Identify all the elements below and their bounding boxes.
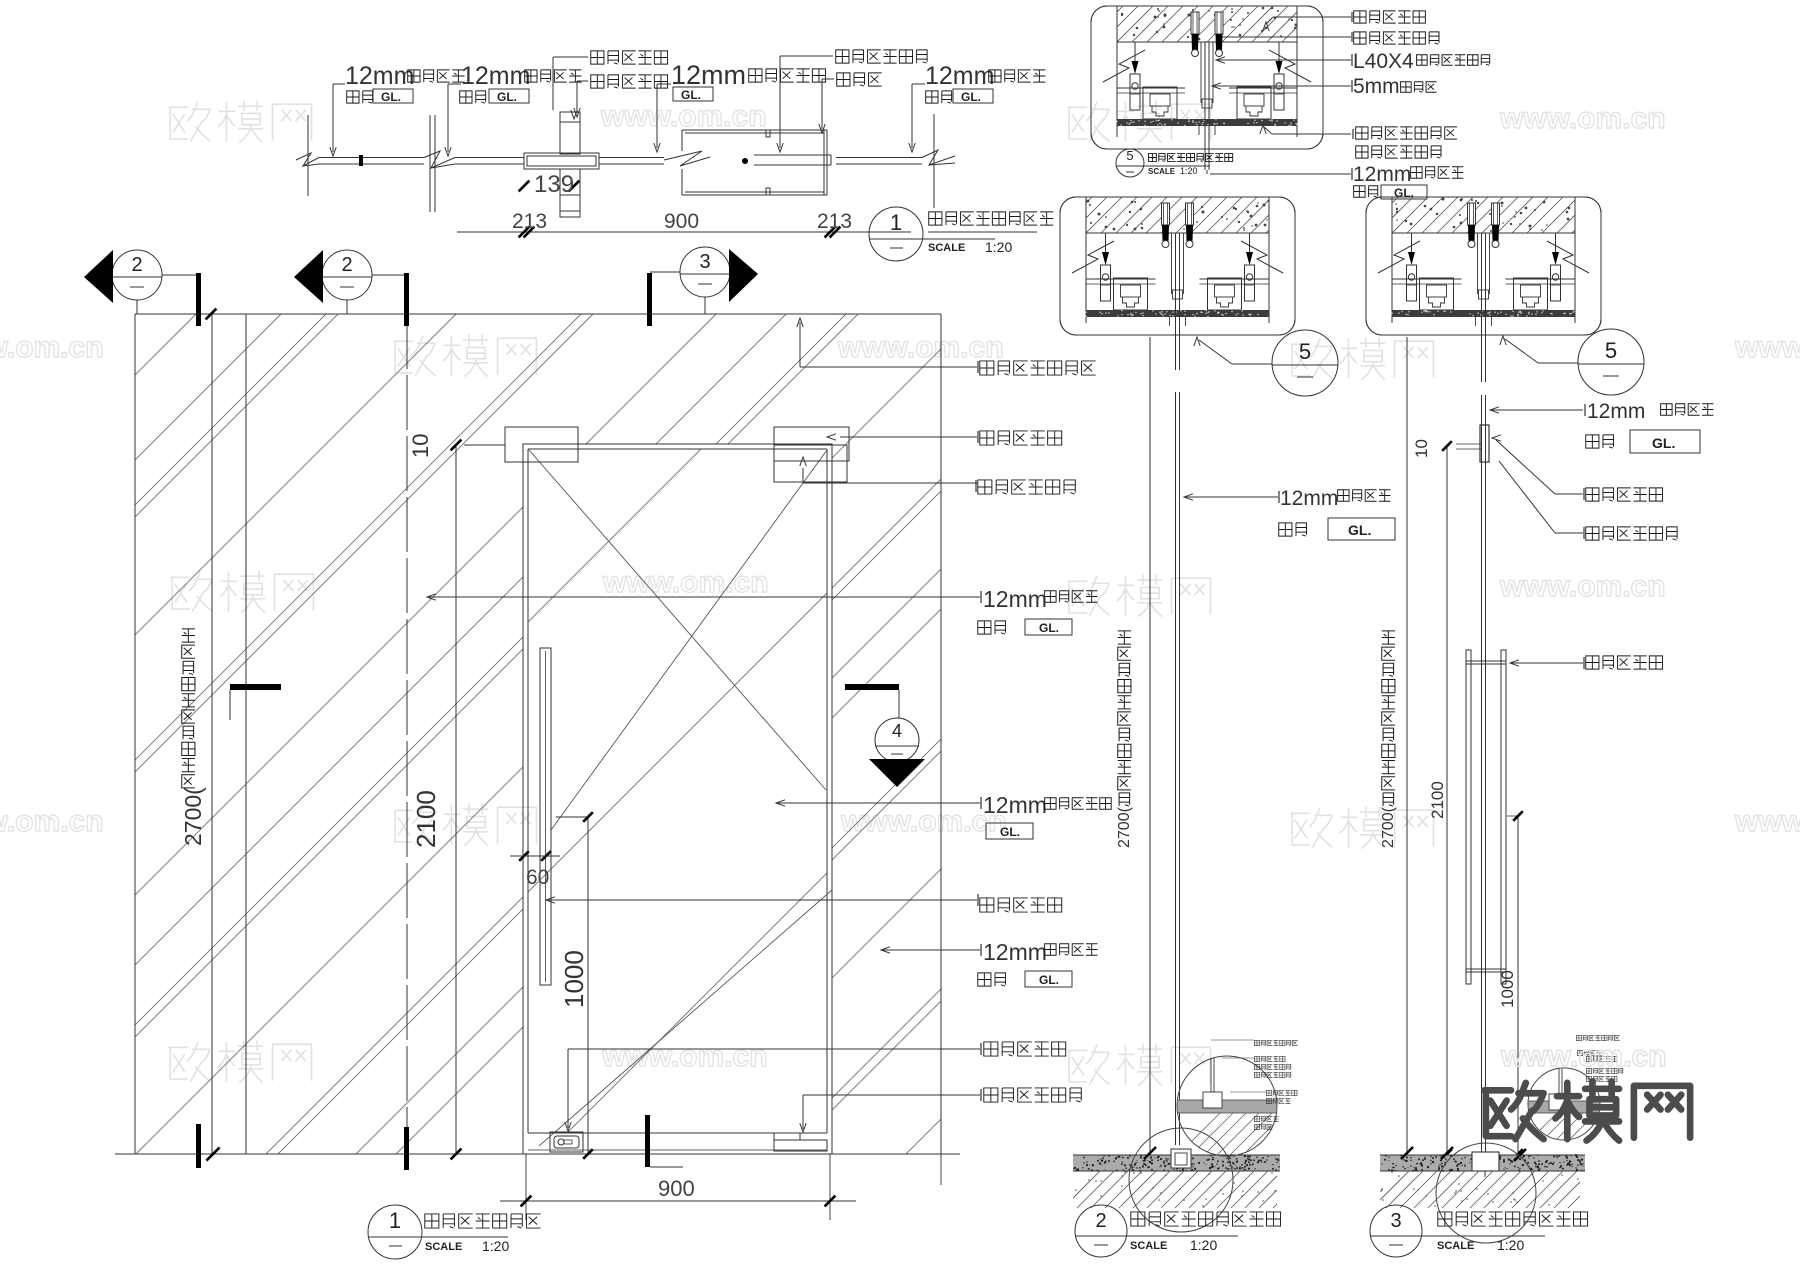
svg-text:GL.: GL. [681, 88, 701, 102]
wall break symbols [1103, 50, 1145, 82]
leader stainless top door clamp [803, 482, 977, 484]
plan door-gap break arrow [664, 151, 710, 166]
svg-text:GL.: GL. [961, 90, 981, 104]
section2 mini floor detail circle [1177, 1056, 1277, 1156]
svg-text:www.om.cn: www.om.cn [0, 331, 104, 364]
ceiling detail rounded frame [1366, 197, 1601, 335]
door handle (elevation) [540, 648, 551, 985]
plan dimension line 213/900/213 [457, 231, 911, 233]
svg-text:www.om.cn: www.om.cn [602, 566, 769, 599]
svg-text:1:20: 1:20 [985, 239, 1012, 255]
section2 big detail circle at floor [1129, 1128, 1233, 1232]
ceiling walls [1391, 233, 1393, 323]
section3 big detail circle at floor [1436, 1143, 1536, 1243]
slab concrete dots [1395, 198, 1570, 233]
furring channel [1117, 87, 1185, 89]
door bottom rail [528, 1149, 827, 1151]
dimension 60 handle [519, 851, 529, 861]
plan break symbol left end [296, 153, 319, 166]
svg-text:L40X4: L40X4 [1353, 50, 1414, 73]
label stainless curved clamp (section3) [1555, 493, 1583, 495]
hanger rods [1134, 42, 1136, 61]
ceiling board speckled band [1086, 310, 1269, 317]
svg-text:www.om.cn: www.om.cn [837, 331, 1004, 364]
elevation outline [135, 313, 941, 315]
section bubble 3 [680, 247, 730, 297]
svg-text:5: 5 [1126, 148, 1133, 163]
svg-text:GL.: GL. [381, 90, 401, 104]
elevation glass hatch (fixed panels) [0, 314, 1746, 1154]
label 12mm glass partition (section3) [1490, 407, 1499, 413]
floor reference ticks [196, 1124, 201, 1168]
leader L40X4 angle steel label [1216, 57, 1225, 63]
door opening X lines [529, 450, 826, 790]
svg-text:12mm: 12mm [983, 939, 1047, 965]
plan lock body lower [560, 169, 580, 195]
bubble 5 for section 2 [1272, 330, 1338, 396]
mid reference tick left [230, 684, 281, 690]
plan door pivot dot [743, 159, 748, 164]
label stainless top door clamp (section3) [1555, 532, 1583, 534]
door lock (elevation) [550, 1132, 583, 1152]
svg-text:GL.: GL. [497, 90, 517, 104]
leader 12mm glass partition right panel [881, 947, 890, 953]
ceiling detail rounded frame [1060, 197, 1295, 335]
carrier clip assemblies [1420, 278, 1454, 310]
svg-text:12mm: 12mm [345, 62, 414, 90]
svg-text:2700(: 2700( [1116, 806, 1133, 848]
svg-text:12mm: 12mm [925, 62, 994, 90]
svg-text:SCALE: SCALE [1130, 1240, 1167, 1252]
section bubble 2b [322, 250, 372, 300]
leader 12mm glass door label [776, 800, 785, 806]
svg-text:www.om.cn: www.om.cn [840, 805, 1007, 838]
section2 concrete hatch below floor [1063, 1171, 1310, 1208]
svg-text:2100: 2100 [1428, 781, 1447, 819]
label stainless steel handle (plan) [591, 75, 668, 88]
svg-text:GL.: GL. [1000, 825, 1020, 839]
svg-text:3: 3 [1390, 1210, 1401, 1232]
dimension 2100 elevation [455, 446, 457, 1154]
ceiling board speckled band [1392, 310, 1575, 317]
glass partition in ceiling detail [1481, 233, 1483, 339]
slab concrete dots [1121, 7, 1298, 41]
anchor bolts [1162, 203, 1170, 225]
svg-text:12mm: 12mm [983, 792, 1047, 818]
svg-text:www.om.cn: www.om.cn [1499, 102, 1666, 135]
label stainless handle (section3) [1510, 660, 1519, 666]
svg-text:1:20: 1:20 [482, 1238, 509, 1254]
watermark grid [169, 101, 311, 142]
top-right glass clamps [774, 427, 849, 461]
svg-text:SCALE: SCALE [1437, 1240, 1474, 1252]
svg-text:GL.: GL. [1039, 621, 1059, 635]
plan panel joint double line [429, 115, 431, 212]
plan door patch fitting 139 [524, 153, 599, 169]
plan panel end line right [933, 114, 935, 208]
svg-text:GL.: GL. [1348, 522, 1371, 538]
ceiling detail rounded frame (redraw) [1366, 197, 1601, 335]
svg-text:1: 1 [389, 1208, 401, 1233]
section bubble 2a [112, 250, 162, 300]
svg-text:www.om.cn: www.om.cn [0, 805, 104, 838]
plan lock body upper [560, 112, 580, 154]
svg-text:2700(: 2700( [1380, 806, 1397, 848]
svg-text:2700(: 2700( [180, 787, 206, 846]
svg-text:900: 900 [664, 210, 699, 233]
leader 5mm steel plate label [1212, 83, 1221, 89]
svg-text:1000: 1000 [559, 950, 589, 1008]
svg-text:2100: 2100 [411, 790, 441, 848]
svg-text:213: 213 [817, 210, 852, 233]
leader stainless door lock label [568, 1048, 980, 1050]
svg-text:2: 2 [1095, 1210, 1106, 1232]
leader cast-in-place slab label [1273, 16, 1351, 18]
svg-text:1:20: 1:20 [1190, 1237, 1217, 1253]
svg-text:www.om.cn: www.om.cn [1734, 331, 1800, 364]
svg-text:10: 10 [1412, 439, 1431, 458]
svg-text:www.om.cn: www.om.cn [1499, 570, 1666, 603]
ceiling walls [1116, 42, 1118, 137]
glass partition in ceiling detail [1204, 42, 1206, 153]
svg-text:12mm: 12mm [1587, 400, 1645, 423]
svg-text:www.om.cn: www.om.cn [600, 100, 767, 133]
glass partition in ceiling detail [1175, 233, 1177, 339]
svg-text:12mm: 12mm [1353, 163, 1411, 186]
hanger rods [1105, 233, 1107, 252]
svg-text:2: 2 [131, 254, 142, 276]
leader 12mm glass partition mid-left [427, 594, 436, 600]
ceiling detail rounded frame (redraw) [1091, 6, 1323, 149]
ceiling detail rounded frame (redraw) [1060, 197, 1295, 335]
title bubble 5 top [1116, 149, 1144, 177]
door glass sparse hatch [0, 314, 1646, 1154]
leader 12mm glass partition label (detail5) [1210, 173, 1351, 175]
label stainless steel door lock (plan) [591, 51, 668, 64]
svg-text:5mm: 5mm [1353, 75, 1400, 98]
plan glass joint marker [359, 155, 363, 166]
leader stainless handle label [546, 897, 555, 903]
detail-5 glass tail [1204, 149, 1206, 170]
svg-text:SCALE: SCALE [928, 242, 965, 254]
svg-text:12mm: 12mm [1280, 487, 1338, 510]
section2 glass partition line [1175, 335, 1177, 370]
wall break symbols [1072, 241, 1114, 273]
section2 floor slash ticks [1144, 1147, 1156, 1159]
dimension 1000 handle center [587, 817, 589, 1154]
label floor spring (plan) [837, 73, 882, 86]
plan break symbol right [922, 150, 955, 165]
svg-text:1:20: 1:20 [1497, 1237, 1524, 1253]
plan door glass bar [754, 154, 831, 156]
svg-text:60: 60 [526, 866, 549, 889]
svg-text:5: 5 [1605, 338, 1617, 363]
section3 handle [1466, 650, 1471, 984]
title bubble 1 plan [869, 207, 923, 261]
section3 mini detail tiny labels [1576, 1035, 1619, 1040]
large watermark logo 欧模网 bottom right [1484, 1081, 1690, 1140]
title bubble 1 elevation [368, 1205, 422, 1259]
svg-text:SCALE: SCALE [425, 1241, 462, 1253]
svg-text:3: 3 [699, 251, 710, 273]
label stainless steel bottom door clamp (plan) [836, 50, 927, 63]
furring channel [1086, 278, 1156, 280]
svg-text:10: 10 [408, 434, 433, 458]
plan view glass partition line [319, 157, 424, 159]
ceiling walls [1085, 233, 1087, 323]
svg-text:1000: 1000 [1498, 970, 1517, 1008]
section2 floor shoe [1171, 1149, 1191, 1168]
section2 floor band [1073, 1155, 1280, 1171]
dimension 10 door top gap [451, 440, 462, 451]
door outer frame [523, 444, 832, 1154]
leader stainless bottom clamp label [803, 1094, 980, 1096]
label 12mm glass partition (section2) [1184, 494, 1193, 500]
leader stainless curved clamp [840, 436, 977, 438]
note 2700 height-per-design (elevation left) [182, 629, 195, 642]
svg-text:4: 4 [892, 721, 902, 741]
section2 2700 extension line [1149, 337, 1151, 1155]
section2 mini detail tiny labels [1254, 1040, 1297, 1045]
section3 floor band [1380, 1155, 1585, 1171]
svg-text:139: 139 [534, 171, 574, 198]
dimension 900 door width [525, 1154, 527, 1220]
svg-text:SCALE: SCALE [1148, 167, 1176, 176]
svg-text:www.om.cn: www.om.cn [1734, 805, 1800, 838]
section3 glass top clamp [1480, 425, 1489, 462]
svg-text:www.om.cn: www.om.cn [601, 1040, 768, 1073]
furring channel [1392, 278, 1462, 280]
leader expansion bolt label [1222, 36, 1351, 38]
section3 floor spring box [1472, 1152, 1499, 1171]
carrier clip assemblies [1143, 87, 1177, 119]
ceiling board speckled band [1117, 119, 1297, 126]
section3 1000 dim line [1517, 816, 1519, 1155]
bubble 5 for section 3 [1578, 329, 1644, 395]
top-left glass clamp [505, 427, 578, 462]
svg-text:12mm: 12mm [461, 62, 530, 90]
hanger rods [1411, 233, 1413, 252]
title bubble 2 [1075, 1205, 1127, 1257]
dimension 139 [519, 181, 530, 192]
anchor bolts [1468, 203, 1476, 225]
svg-text:1: 1 [890, 210, 902, 235]
anchor bolts [1191, 12, 1199, 34]
section3 floor slash ticks [1401, 1147, 1413, 1159]
plan break symbol mid [424, 151, 455, 168]
carrier clip assemblies [1114, 278, 1148, 310]
svg-text:GL.: GL. [1039, 973, 1059, 987]
elevation floor line [115, 1153, 960, 1155]
door inner frame [528, 448, 827, 450]
plan door leaf channel [682, 129, 827, 131]
svg-text:2: 2 [341, 254, 352, 276]
elevation vertical joint lines [211, 314, 213, 1154]
bottom-right door clamp [774, 1140, 827, 1151]
section3 2700 extension line [1406, 337, 1408, 1155]
svg-text:5: 5 [1299, 339, 1311, 364]
ceiling detail rounded frame [1091, 6, 1323, 149]
plan panel end line left [307, 115, 309, 196]
leader ceiling material note [1272, 133, 1351, 135]
svg-text:12mm: 12mm [671, 60, 746, 90]
section bubble 4 [845, 684, 899, 690]
section3 glass partition line [1481, 335, 1483, 382]
svg-text:www.om.cn: www.om.cn [1500, 1040, 1667, 1073]
wall break symbols [1378, 241, 1420, 273]
leader ceiling finish face [799, 322, 801, 367]
title bubble 3 [1370, 1205, 1422, 1257]
plan door hinge notches [766, 130, 770, 137]
svg-text:213: 213 [512, 210, 547, 233]
svg-text:GL.: GL. [1652, 435, 1675, 451]
svg-text:12mm: 12mm [983, 586, 1047, 612]
section3 2100 dim line [1446, 446, 1448, 1155]
svg-text:1:20: 1:20 [1180, 166, 1198, 176]
svg-text:900: 900 [658, 1176, 695, 1201]
section3 mini floor detail circle [1528, 1068, 1600, 1140]
slab concrete dots [1087, 200, 1269, 231]
